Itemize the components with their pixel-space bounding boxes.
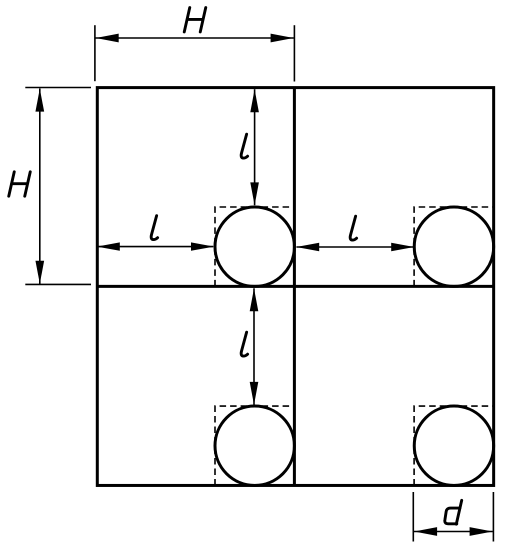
dimension d: left extension line (412, 492, 414, 542)
dimension H left: bottom arrowhead (35, 261, 44, 284)
dimension d: dimension line (414, 531, 493, 533)
circle center (215, 207, 294, 286)
dimension H top: right extension line (293, 25, 295, 81)
circle bottom middle (215, 406, 294, 485)
wire mid horizontal line (97, 285, 493, 288)
label l lower (241, 332, 247, 356)
dimension d: right arrowhead (470, 527, 493, 536)
dimension l lower vertical: top arrowhead (250, 288, 259, 311)
dimension d: right extension line (492, 492, 494, 542)
dimension H top: left arrowhead (96, 34, 119, 43)
label d (445, 500, 462, 524)
label l left (151, 216, 157, 240)
dimension H left: bottom extension line (25, 283, 91, 285)
dimension l right horizontal: right arrowhead (391, 243, 414, 251)
big square outline (97, 88, 493, 486)
label l right (350, 216, 356, 240)
dashed box center circle (215, 207, 294, 286)
circle bottom right (414, 406, 493, 485)
dimension l left horizontal: right arrowhead (191, 242, 214, 250)
dashed box bottom middle circle (215, 406, 294, 485)
dimension d: left arrowhead (414, 527, 437, 536)
dimension H left: top extension line (25, 87, 91, 89)
dimension l right horizontal: line (296, 246, 413, 248)
dimension H top: right arrowhead (271, 34, 294, 43)
label l upper (241, 134, 247, 158)
dashed box right circle (414, 207, 494, 286)
dimension l left horizontal: line (98, 246, 214, 248)
dimension l lower vertical: line (253, 288, 255, 404)
dimension l upper vertical: bottom arrowhead (250, 182, 259, 205)
circle right (414, 207, 493, 286)
dimension H left: top arrowhead (35, 89, 44, 112)
label H top (184, 8, 206, 32)
dashed box bottom right circle (414, 406, 494, 485)
dimension l right horizontal: left arrowhead (296, 243, 319, 251)
dimension H left: dimension line (39, 89, 41, 285)
label H left (9, 172, 31, 196)
dimension l left horizontal: left arrowhead (97, 242, 120, 250)
dimension H top: left extension line (94, 25, 96, 81)
dimension H top: dimension line (96, 37, 294, 39)
dimension l lower vertical: bottom arrowhead (250, 382, 259, 405)
wire mid vertical line (293, 88, 296, 486)
dimension l upper vertical: top arrowhead (250, 89, 259, 112)
dimension l upper vertical: line (254, 89, 256, 205)
